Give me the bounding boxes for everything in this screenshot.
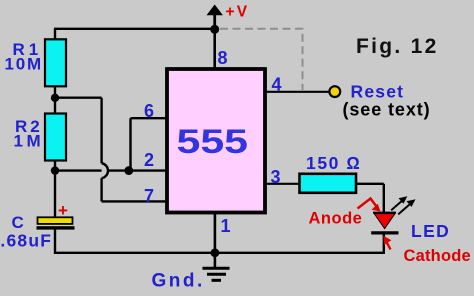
svg-text:555: 555 xyxy=(177,123,249,161)
svg-text:LED: LED xyxy=(411,221,450,241)
pin 4 wire xyxy=(265,91,330,93)
node junction pin2-pin6 xyxy=(124,166,133,175)
power +V arrow xyxy=(207,5,223,32)
svg-text:3: 3 xyxy=(271,167,281,187)
wire junction to pin 7 xyxy=(55,98,166,202)
svg-text:Cathode: Cathode xyxy=(404,247,471,265)
svg-text:10M: 10M xyxy=(5,55,43,74)
svg-text:2: 2 xyxy=(144,150,154,170)
resistor R3 150 ohm xyxy=(300,174,357,193)
wire +V top rail xyxy=(54,28,215,30)
pin 8 wire xyxy=(213,29,216,68)
svg-text:Anode: Anode xyxy=(309,210,363,228)
wire hop-over arc xyxy=(102,163,108,178)
svg-text:7: 7 xyxy=(144,186,154,206)
wire pin 6 branch xyxy=(131,118,167,170)
light emission arrows xyxy=(391,196,415,214)
wire pin 2 line xyxy=(55,169,166,171)
wire R3 to LED xyxy=(356,184,384,213)
svg-text:1M: 1M xyxy=(14,132,45,151)
LED xyxy=(371,213,398,254)
node junction ground xyxy=(211,248,220,257)
svg-text:8: 8 xyxy=(218,48,228,68)
svg-text:0.68uF: 0.68uF xyxy=(0,231,52,251)
op-amp U1 555 timer IC xyxy=(167,69,265,213)
resistor R1 xyxy=(45,29,66,98)
label Anode with arrow xyxy=(309,199,381,228)
dashed wire to reset xyxy=(220,29,303,90)
svg-text:+V: +V xyxy=(226,4,250,21)
svg-text:Reset: Reset xyxy=(351,81,405,101)
pin 3 wire xyxy=(265,183,300,185)
resistor R2 xyxy=(45,98,66,171)
svg-text:6: 6 xyxy=(144,101,154,121)
node junction +V xyxy=(210,25,219,34)
capacitor C xyxy=(37,171,75,254)
label R1 10M xyxy=(5,40,43,74)
svg-text:(see text): (see text) xyxy=(343,99,431,119)
node junction R2-C-pin2 xyxy=(51,166,59,174)
svg-text:4: 4 xyxy=(272,75,282,95)
svg-text:150 Ω: 150 Ω xyxy=(306,153,362,173)
label R2 1M xyxy=(14,117,45,151)
ground symbol xyxy=(203,253,230,280)
svg-text:C: C xyxy=(12,213,24,232)
svg-text:Fig. 12: Fig. 12 xyxy=(356,35,439,58)
svg-text:Gnd.: Gnd. xyxy=(152,271,205,292)
svg-text:+: + xyxy=(58,201,68,220)
pin 1 wire xyxy=(214,213,217,253)
ground rail wire xyxy=(54,252,385,254)
reset terminal circle xyxy=(329,86,340,97)
label Cathode with arrow xyxy=(383,236,471,265)
svg-text:1: 1 xyxy=(221,216,231,236)
node junction R1-R2 xyxy=(51,94,59,102)
